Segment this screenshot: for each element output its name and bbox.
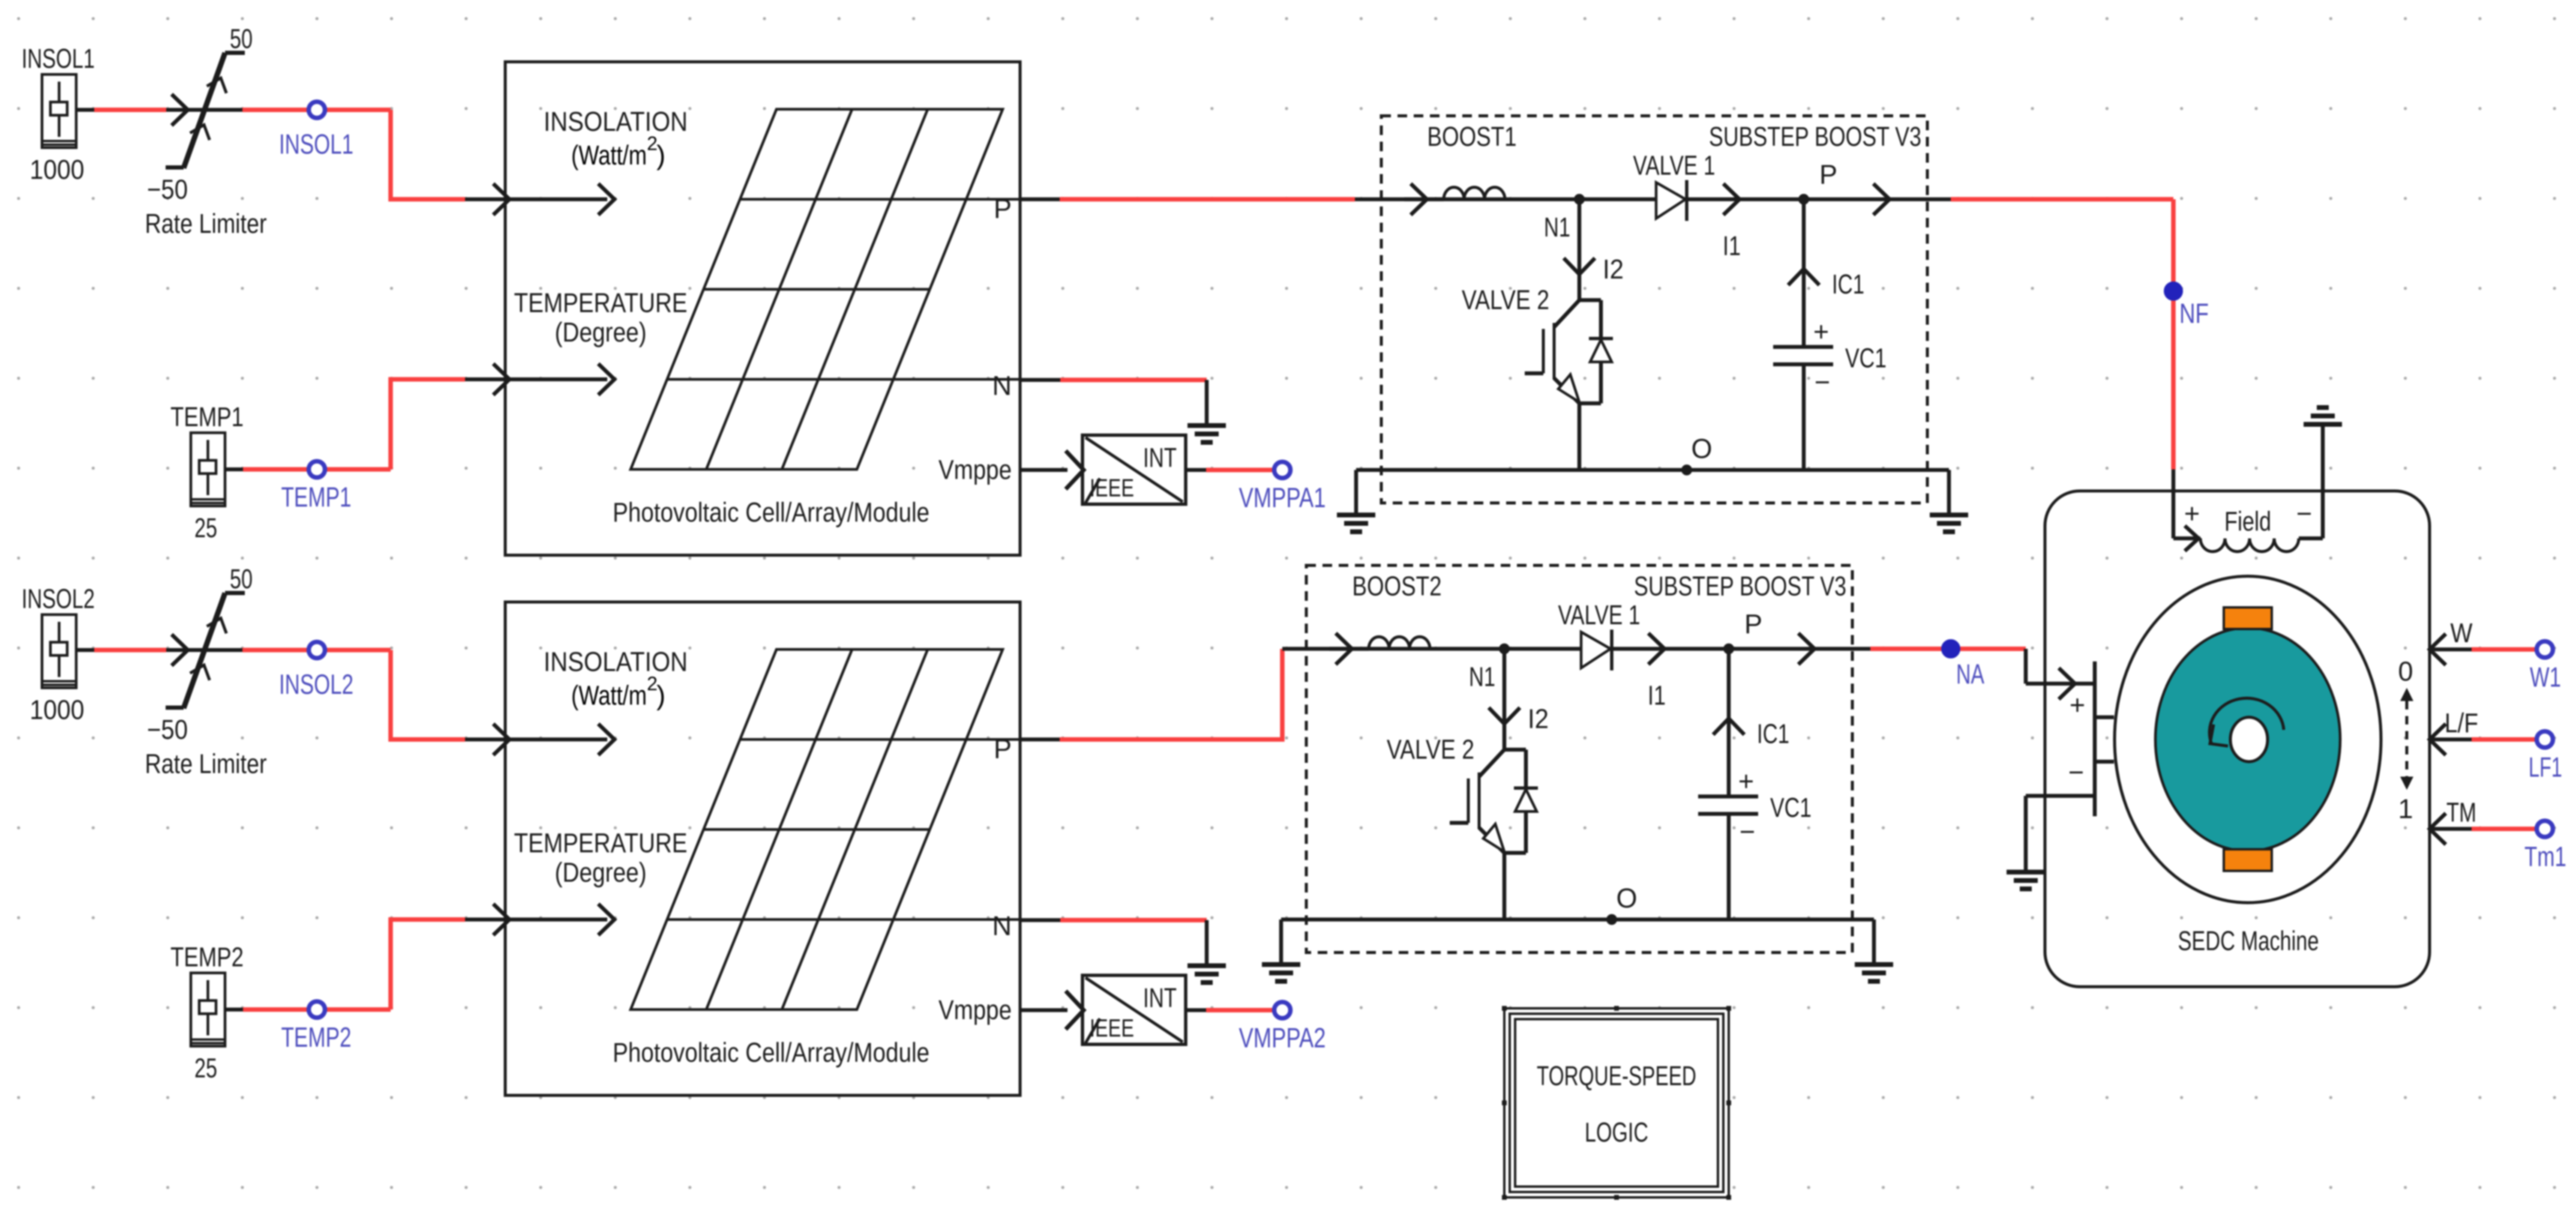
svg-text:SUBSTEP BOOST V3: SUBSTEP BOOST V3 (1709, 121, 1921, 152)
armature terminal bar (2068, 661, 2114, 816)
svg-text:): ) (656, 140, 665, 170)
svg-text:Photovoltaic Cell/Array/Module: Photovoltaic Cell/Array/Module (613, 497, 929, 528)
svg-text:−50: −50 (147, 174, 188, 205)
photovoltaic module PV2 (493, 602, 1067, 1095)
svg-text:P: P (1744, 609, 1762, 639)
svg-text:TEMP1: TEMP1 (281, 481, 352, 513)
svg-text:−: − (2068, 757, 2084, 787)
capacitor VC1 (1698, 649, 1812, 920)
wire (76, 108, 166, 112)
svg-text:BOOST2: BOOST2 (1353, 571, 1442, 601)
svg-text:INSOL1: INSOL1 (22, 43, 95, 74)
IGBT VALVE 2 (1387, 734, 1526, 853)
svg-text:W: W (2451, 618, 2473, 648)
svg-text:+: + (2184, 498, 2200, 529)
svg-text:+: + (1813, 316, 1829, 347)
photovoltaic module PV1 (493, 62, 1067, 555)
anti-parallel diode of VALVE 2 (1579, 300, 1613, 470)
svg-text:1: 1 (2398, 793, 2413, 824)
node P junction (1798, 159, 1890, 215)
boost converter dashed enclosure BOOST2 (1306, 565, 1852, 953)
svg-text:25: 25 (194, 513, 217, 543)
svg-text:SUBSTEP BOOST V3: SUBSTEP BOOST V3 (1634, 571, 1846, 601)
diode VALVE 1 (1558, 600, 1666, 711)
node VMPPA1 (1239, 462, 1326, 514)
source INSOL1 (22, 43, 95, 185)
node LF1 (2529, 732, 2562, 783)
node NF (2164, 282, 2209, 330)
wire (225, 468, 391, 472)
svg-text:TEMP2: TEMP2 (170, 942, 244, 972)
svg-text:INT: INT (1143, 983, 1177, 1013)
svg-text:LOGIC: LOGIC (1585, 1117, 1648, 1148)
node O junction (1681, 433, 1713, 475)
svg-text:(Degree): (Degree) (555, 857, 647, 888)
rate limiter 1 (145, 23, 267, 239)
node VMPPA2 (1239, 1002, 1326, 1054)
svg-text:I2: I2 (1603, 254, 1624, 284)
svg-text:INT: INT (1143, 442, 1177, 473)
source TEMP2 (170, 942, 244, 1083)
brush bottom (2224, 849, 2272, 871)
node TEMP2 (281, 1002, 352, 1053)
svg-text:(Watt/m: (Watt/m (571, 680, 647, 711)
capacitor VC1 (1773, 199, 1887, 470)
node INSOL2 (279, 642, 353, 700)
node N1 junction (1469, 643, 1510, 692)
ground (2007, 872, 2045, 889)
IGBT VALVE 2 (1462, 284, 1601, 403)
svg-text:VC1: VC1 (1770, 792, 1812, 823)
wire main line BOOST1 (1355, 197, 1951, 202)
svg-text:TEMP2: TEMP2 (281, 1022, 352, 1053)
ground left of BOOST2 (1262, 920, 1300, 981)
svg-text:50: 50 (230, 23, 253, 54)
svg-text:INSOLATION: INSOLATION (544, 106, 688, 137)
svg-text:W1: W1 (2530, 661, 2561, 693)
svg-text:O: O (1691, 433, 1712, 464)
inductor L BOOST2 (1329, 633, 1430, 664)
svg-text:Rate Limiter: Rate Limiter (145, 748, 267, 779)
shaft hole (2230, 717, 2268, 762)
svg-text:TORQUE-SPEED: TORQUE-SPEED (1537, 1061, 1696, 1091)
wire (391, 379, 505, 469)
svg-text:−: − (1815, 367, 1830, 397)
source INSOL2 (22, 583, 95, 725)
node N1 junction (1544, 194, 1585, 242)
wire to NF (1951, 199, 2173, 538)
svg-text:Field: Field (2224, 506, 2271, 537)
svg-text:+: + (1738, 766, 1754, 796)
svg-text:LF1: LF1 (2529, 751, 2562, 783)
svg-text:IC1: IC1 (1757, 718, 1789, 749)
node W1 (2530, 642, 2561, 693)
svg-text:−50: −50 (147, 714, 188, 745)
rotation arrow (2209, 698, 2284, 746)
svg-text:N: N (992, 370, 1012, 401)
wire to NA (1870, 646, 2026, 651)
wire N1 to IGBT (1564, 199, 1624, 300)
wire P output PV2 (1020, 649, 1282, 739)
svg-text:NA: NA (1956, 658, 1984, 690)
svg-text:I1: I1 (1648, 680, 1666, 711)
svg-text:50: 50 (230, 564, 253, 594)
svg-text:1000: 1000 (30, 154, 85, 185)
svg-text:I2: I2 (1528, 703, 1549, 734)
wire N output PV1 (1020, 380, 1207, 426)
ground (1187, 966, 1226, 983)
svg-text:Tm1: Tm1 (2524, 841, 2566, 872)
node NA (1942, 640, 1985, 690)
node Tm1 (2524, 821, 2566, 873)
wire P output PV1 (1020, 197, 1355, 202)
svg-text:TEMPERATURE: TEMPERATURE (514, 287, 688, 318)
SEDC machine body (2045, 491, 2430, 987)
svg-text:(Watt/m: (Watt/m (571, 140, 647, 170)
svg-text:IC1: IC1 (1832, 269, 1864, 299)
rate limiter 2 (145, 564, 267, 779)
source TEMP1 (170, 402, 244, 543)
label SEDC Machine (2178, 926, 2319, 956)
svg-text:NF: NF (2179, 298, 2209, 329)
svg-text:TM: TM (2446, 797, 2476, 828)
wire (391, 110, 505, 199)
svg-text:VMPPA2: VMPPA2 (1239, 1022, 1326, 1053)
svg-text:IEEE: IEEE (1090, 474, 1134, 502)
svg-text:SEDC Machine: SEDC Machine (2178, 926, 2319, 956)
svg-text:VALVE 1: VALVE 1 (1633, 150, 1716, 181)
wire (76, 648, 166, 652)
input W (2430, 618, 2537, 665)
svg-text:N1: N1 (1544, 212, 1570, 242)
svg-text:(Degree): (Degree) (555, 317, 647, 348)
inductor L BOOST1 (1404, 184, 1505, 215)
svg-text:P: P (1819, 159, 1837, 190)
svg-text:L/F: L/F (2445, 708, 2478, 738)
svg-text:Rate Limiter: Rate Limiter (145, 208, 267, 239)
svg-text:INSOL2: INSOL2 (22, 583, 95, 614)
node TEMP1 (281, 462, 352, 513)
wire (242, 648, 391, 652)
svg-text:Vmppe: Vmppe (938, 454, 1012, 485)
wire armature minus (2026, 796, 2093, 872)
svg-text:VMPPA1: VMPPA1 (1239, 482, 1326, 513)
svg-text:Photovoltaic Cell/Array/Module: Photovoltaic Cell/Array/Module (613, 1037, 929, 1068)
input TM (2430, 797, 2537, 844)
svg-text:N1: N1 (1469, 661, 1495, 692)
bottom rail wire (1356, 468, 1949, 472)
wire main line BOOST2 (1282, 647, 1870, 651)
diode VALVE 1 (1633, 150, 1741, 261)
anti-parallel diode of VALVE 2 (1504, 750, 1538, 920)
ground above field (2304, 408, 2342, 424)
boost converter dashed enclosure BOOST1 (1381, 116, 1927, 503)
ground right of BOOST1 (1930, 470, 1968, 532)
field winding (2173, 427, 2323, 552)
svg-text:IEEE: IEEE (1090, 1014, 1134, 1042)
signal converter INT/IEEE U1 (1066, 435, 1186, 504)
svg-text:0: 0 (2398, 656, 2413, 687)
svg-text:25: 25 (194, 1053, 217, 1083)
ground right of BOOST2 (1855, 920, 1893, 981)
wire N output PV2 (1020, 920, 1207, 966)
wire (225, 1008, 391, 1012)
ground left of BOOST1 (1337, 470, 1375, 532)
wire (391, 650, 505, 739)
svg-text:VALVE 2: VALVE 2 (1462, 284, 1549, 315)
node O junction (1606, 883, 1638, 925)
wire (1186, 468, 1274, 472)
svg-text:INSOL1: INSOL1 (279, 128, 353, 160)
torque-speed logic block (1502, 1006, 1731, 1200)
svg-text:N: N (992, 911, 1012, 941)
svg-text:VALVE 1: VALVE 1 (1558, 600, 1641, 630)
svg-text:I1: I1 (1723, 230, 1741, 261)
node P junction (1723, 609, 1815, 664)
svg-text:VALVE 2: VALVE 2 (1387, 734, 1474, 765)
svg-text:+: + (2070, 690, 2085, 720)
stator (2115, 576, 2381, 903)
svg-text:INSOL2: INSOL2 (279, 669, 353, 700)
svg-text:): ) (656, 680, 665, 711)
brush top (2224, 607, 2272, 629)
wire (1186, 1008, 1274, 1013)
svg-text:O: O (1616, 883, 1637, 914)
svg-text:TEMP1: TEMP1 (170, 402, 244, 432)
svg-text:TEMPERATURE: TEMPERATURE (514, 828, 688, 858)
svg-text:INSOLATION: INSOLATION (544, 646, 688, 677)
svg-text:−: − (1740, 816, 1755, 847)
svg-text:BOOST1: BOOST1 (1428, 121, 1517, 152)
rotor (2155, 628, 2340, 851)
svg-text:1000: 1000 (30, 694, 85, 725)
node INSOL1 (279, 102, 353, 160)
wire (391, 920, 505, 1010)
input L/F (2430, 708, 2537, 755)
svg-text:P: P (994, 733, 1012, 764)
svg-text:Vmppe: Vmppe (938, 995, 1012, 1025)
bottom rail wire (1281, 918, 1874, 922)
wire (242, 107, 391, 112)
svg-text:VC1: VC1 (1845, 343, 1887, 373)
wire armature plus (2026, 649, 2093, 699)
wire N1 to IGBT (1489, 649, 1549, 750)
ground (1187, 426, 1226, 442)
tap selector 0-1 (2398, 656, 2413, 824)
svg-text:P: P (994, 193, 1012, 224)
signal converter INT/IEEE U2 (1066, 975, 1186, 1044)
svg-text:−: − (2296, 498, 2312, 529)
